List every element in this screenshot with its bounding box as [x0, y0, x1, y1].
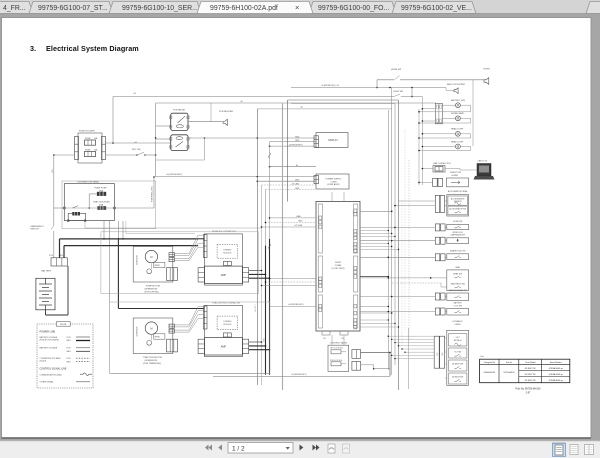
- svg-text:99759-6G100-02_VE...: 99759-6G100-02_VE...: [401, 5, 472, 12]
- svg-text:2-97: 2-97: [526, 391, 531, 394]
- svg-text:NEG: NEG: [67, 361, 72, 363]
- svg-text:99759-6G100-10_SER...: 99759-6G100-10_SER...: [122, 5, 198, 12]
- svg-text:MODULE: MODULE: [223, 253, 232, 255]
- svg-text:BRAKE FLUID SW: BRAKE FLUID SW: [450, 250, 465, 253]
- svg-text:AMP: AMP: [221, 346, 227, 349]
- svg-text:GND: GND: [295, 136, 300, 138]
- svg-text:GND: GND: [298, 220, 303, 222]
- svg-text:GP-18/07 7NC: GP-18/07 7NC: [525, 380, 537, 382]
- svg-text:Use for: Use for: [506, 361, 512, 364]
- svg-text:HORN/L AMP: HORN/L AMP: [451, 112, 464, 115]
- svg-text:99759-6H100-02A.pdf: 99759-6H100-02A.pdf: [210, 5, 278, 12]
- svg-text:+B (FROM KEY): +B (FROM KEY): [288, 304, 304, 306]
- svg-text:TRACTION FUSE: TRACTION FUSE: [93, 200, 110, 203]
- svg-text:99759-6G100-00_FO...: 99759-6G100-00_FO...: [318, 5, 389, 12]
- svg-text:GP-18/07 7NC: GP-18/07 7NC: [525, 368, 537, 370]
- svg-text:W/SENSOR: W/SENSOR: [137, 255, 139, 265]
- svg-text:ACCELERATOR PEDAL: ACCELERATOR PEDAL: [448, 190, 468, 193]
- svg-text:NEG: NEG: [67, 340, 72, 342]
- svg-text:UB 736 T: UB 736 T: [255, 304, 257, 312]
- svg-text:FOR RISE(+24V): FOR RISE(+24V): [152, 186, 154, 202]
- svg-text:FUSE HOLDER: FUSE HOLDER: [79, 131, 95, 133]
- svg-text:HEAD LIGHT: HEAD LIGHT: [451, 140, 464, 143]
- svg-text:GND: GND: [295, 188, 300, 190]
- svg-text:LEVER: LEVER: [455, 324, 462, 326]
- svg-text:DRIVE SW: DRIVE SW: [453, 221, 462, 223]
- svg-text:DISPLAY: DISPLAY: [328, 139, 338, 142]
- svg-text:W/SENSOR: W/SENSOR: [137, 326, 139, 336]
- svg-text:BATTERY (SP): BATTERY (SP): [451, 99, 465, 102]
- svg-text:+B (FROM KEY): +B (FROM KEY): [166, 174, 182, 176]
- svg-text:+VCL AN: +VCL AN: [291, 182, 299, 185]
- svg-text:4_FR...: 4_FR...: [3, 5, 26, 12]
- svg-text:SEAT SW: SEAT SW: [453, 273, 462, 276]
- svg-text:JOINT: JOINT: [335, 262, 342, 264]
- svg-text:GT818A-25001-up: GT818A-25001-up: [549, 373, 563, 376]
- svg-text:CN8: CN8: [442, 353, 444, 356]
- svg-text:Categorie No: Categorie No: [484, 361, 495, 364]
- svg-text:(W/SENSOR): (W/SENSOR): [145, 360, 158, 362]
- svg-text:GND: GND: [295, 140, 300, 142]
- svg-text:(FOR LIFTING): (FOR LIFTING): [145, 292, 160, 294]
- svg-text:MODULE: MODULE: [223, 324, 232, 326]
- svg-text:POWER LINE: POWER LINE: [40, 331, 56, 334]
- svg-text:P/S LOCK SOL: P/S LOCK SOL: [330, 360, 342, 362]
- svg-text:CAN CONNECTOR: CAN CONNECTOR: [433, 162, 451, 165]
- svg-text:PCB BUZZER: PCB BUZZER: [219, 111, 233, 113]
- svg-text:KEY SW: KEY SW: [132, 149, 141, 151]
- svg-text:Serial Number: Serial Number: [550, 361, 562, 364]
- svg-text:GT818A-30001-up: GT818A-30001-up: [549, 379, 563, 382]
- svg-text:+B (FROM KEY): +B (FROM KEY): [289, 144, 303, 146]
- svg-text:+B (FROM KEY) (+5): +B (FROM KEY) (+5): [321, 85, 339, 87]
- svg-text:PUMP MOTOR: PUMP MOTOR: [146, 286, 161, 288]
- svg-text:NEG: NEG: [52, 169, 54, 173]
- svg-text:CONTROL VALVE: CONTROL VALVE: [330, 342, 348, 345]
- svg-text:ACCELERATOR SW: ACCELERATOR SW: [449, 207, 466, 210]
- svg-text:EMERGENCY: EMERGENCY: [31, 226, 45, 228]
- svg-text:CN7: CN7: [437, 353, 439, 356]
- svg-text:99759-6G100-07_ST...: 99759-6G100-07_ST...: [38, 5, 108, 12]
- svg-text:LEVER: LEVER: [452, 175, 459, 177]
- svg-text:POWER SUPPLY: POWER SUPPLY: [326, 179, 343, 181]
- svg-text:LIGHT SW: LIGHT SW: [393, 91, 403, 93]
- svg-text:HEAD LIGHT: HEAD LIGHT: [451, 128, 464, 131]
- svg-text:COMMUNICATION (CAN): COMMUNICATION (CAN): [40, 374, 62, 377]
- svg-text:SEAT BELT SW: SEAT BELT SW: [451, 282, 465, 285]
- svg-text:HORN SW: HORN SW: [391, 69, 401, 71]
- svg-text:+VCL AN: +VCL AN: [294, 224, 303, 227]
- svg-text:(JOINT ASSY): (JOINT ASSY): [327, 183, 340, 186]
- svg-text:NOTE: NOTE: [60, 324, 67, 326]
- svg-text:BATTERY: BATTERY: [41, 270, 51, 273]
- svg-text:DIAPHRAGM SW: DIAPHRAGM SW: [451, 234, 466, 237]
- svg-text:Electrical System Diagram: Electrical System Diagram: [46, 44, 139, 53]
- svg-text:SPEED: SPEED: [155, 336, 161, 338]
- svg-text:Pub.No.99759-6H100: Pub.No.99759-6H100: [515, 387, 541, 391]
- svg-text:TILT SW: TILT SW: [454, 351, 461, 353]
- svg-text:CAN TOOL: CAN TOOL: [478, 160, 489, 163]
- svg-text:(FOR TRAVELING): (FOR TRAVELING): [143, 362, 161, 365]
- svg-text:GT818A-30001-up: GT818A-30001-up: [549, 367, 563, 370]
- svg-text:(LOGIC UNIT): (LOGIC UNIT): [332, 268, 345, 270]
- svg-text:PARKING BRAKE SW: PARKING BRAKE SW: [449, 289, 467, 292]
- svg-text:NEG: NEG: [67, 351, 72, 353]
- svg-text:THERMO: THERMO: [223, 321, 232, 323]
- svg-text:ATTACH: ATTACH: [454, 339, 462, 342]
- svg-text:PCB RELAY: PCB RELAY: [173, 108, 186, 111]
- svg-text:GND: GND: [295, 179, 300, 181]
- svg-text:TRACTION MOTOR: TRACTION MOTOR: [143, 356, 162, 359]
- svg-text:HORN: HORN: [484, 69, 491, 71]
- svg-text:K0900-6H100: K0900-6H100: [484, 372, 495, 374]
- svg-text:M: M: [150, 327, 152, 331]
- svg-text:BATTERY VOLTAGE: BATTERY VOLTAGE: [40, 336, 58, 339]
- svg-text:99759-6H100: 99759-6H100: [503, 372, 514, 374]
- svg-text:ACCELERATOR: ACCELERATOR: [451, 197, 465, 200]
- svg-text:ATTACH SW: ATTACH SW: [452, 363, 463, 366]
- svg-text:CONN: CONN: [331, 181, 337, 183]
- svg-text:CONVERTED VOLTAGE: CONVERTED VOLTAGE: [40, 357, 62, 360]
- svg-text:(N-24V): (N-24V): [40, 361, 47, 363]
- svg-text:GP-1/K07 7NL: GP-1/K07 7NL: [525, 374, 536, 376]
- svg-text:CAN+: CAN+: [296, 215, 302, 218]
- svg-text:3.: 3.: [30, 44, 36, 53]
- svg-text:ATTACH SW: ATTACH SW: [452, 376, 463, 379]
- svg-text:M: M: [150, 255, 152, 259]
- svg-text:(FOR MOTOR DRIVE): (FOR MOTOR DRIVE): [40, 339, 59, 341]
- svg-text:SPEED: SPEED: [155, 265, 161, 267]
- svg-text:SWITCH: SWITCH: [31, 229, 40, 231]
- svg-text:Cat: Cat: [480, 355, 484, 358]
- svg-text:+B (FROM KEY): +B (FROM KEY): [291, 374, 307, 376]
- svg-text:BATTERY: BATTERY: [454, 302, 463, 305]
- svg-text:HYDRAULIC: HYDRAULIC: [453, 320, 464, 323]
- svg-text:1 / 2: 1 / 2: [232, 446, 245, 453]
- svg-text:PUMP FUSE: PUMP FUSE: [94, 188, 107, 190]
- svg-text:DISTRIBUTION PANEL: DISTRIBUTION PANEL: [77, 181, 100, 184]
- svg-text:LIFT LOCK SOL: LIFT LOCK SOL: [330, 348, 343, 350]
- svg-text:CONN: CONN: [335, 265, 342, 267]
- svg-text:(W/SENSOR): (W/SENSOR): [145, 289, 158, 291]
- svg-text:BATTERY VOLTAGE: BATTERY VOLTAGE: [40, 347, 58, 350]
- svg-text:BACK UP BUZZER: BACK UP BUZZER: [447, 83, 465, 86]
- svg-text:THERMO: THERMO: [223, 250, 232, 252]
- svg-text:CONTROL SIGNAL LINE: CONTROL SIGNAL LINE: [40, 367, 67, 370]
- svg-text:×: ×: [295, 3, 299, 12]
- svg-text:GND: GND: [263, 337, 265, 342]
- svg-text:LOCK SW: LOCK SW: [454, 305, 463, 307]
- svg-text:Truck Model: Truck Model: [525, 361, 536, 364]
- svg-text:AMP: AMP: [221, 274, 227, 277]
- svg-text:OTHER SIGNAL: OTHER SIGNAL: [40, 381, 54, 384]
